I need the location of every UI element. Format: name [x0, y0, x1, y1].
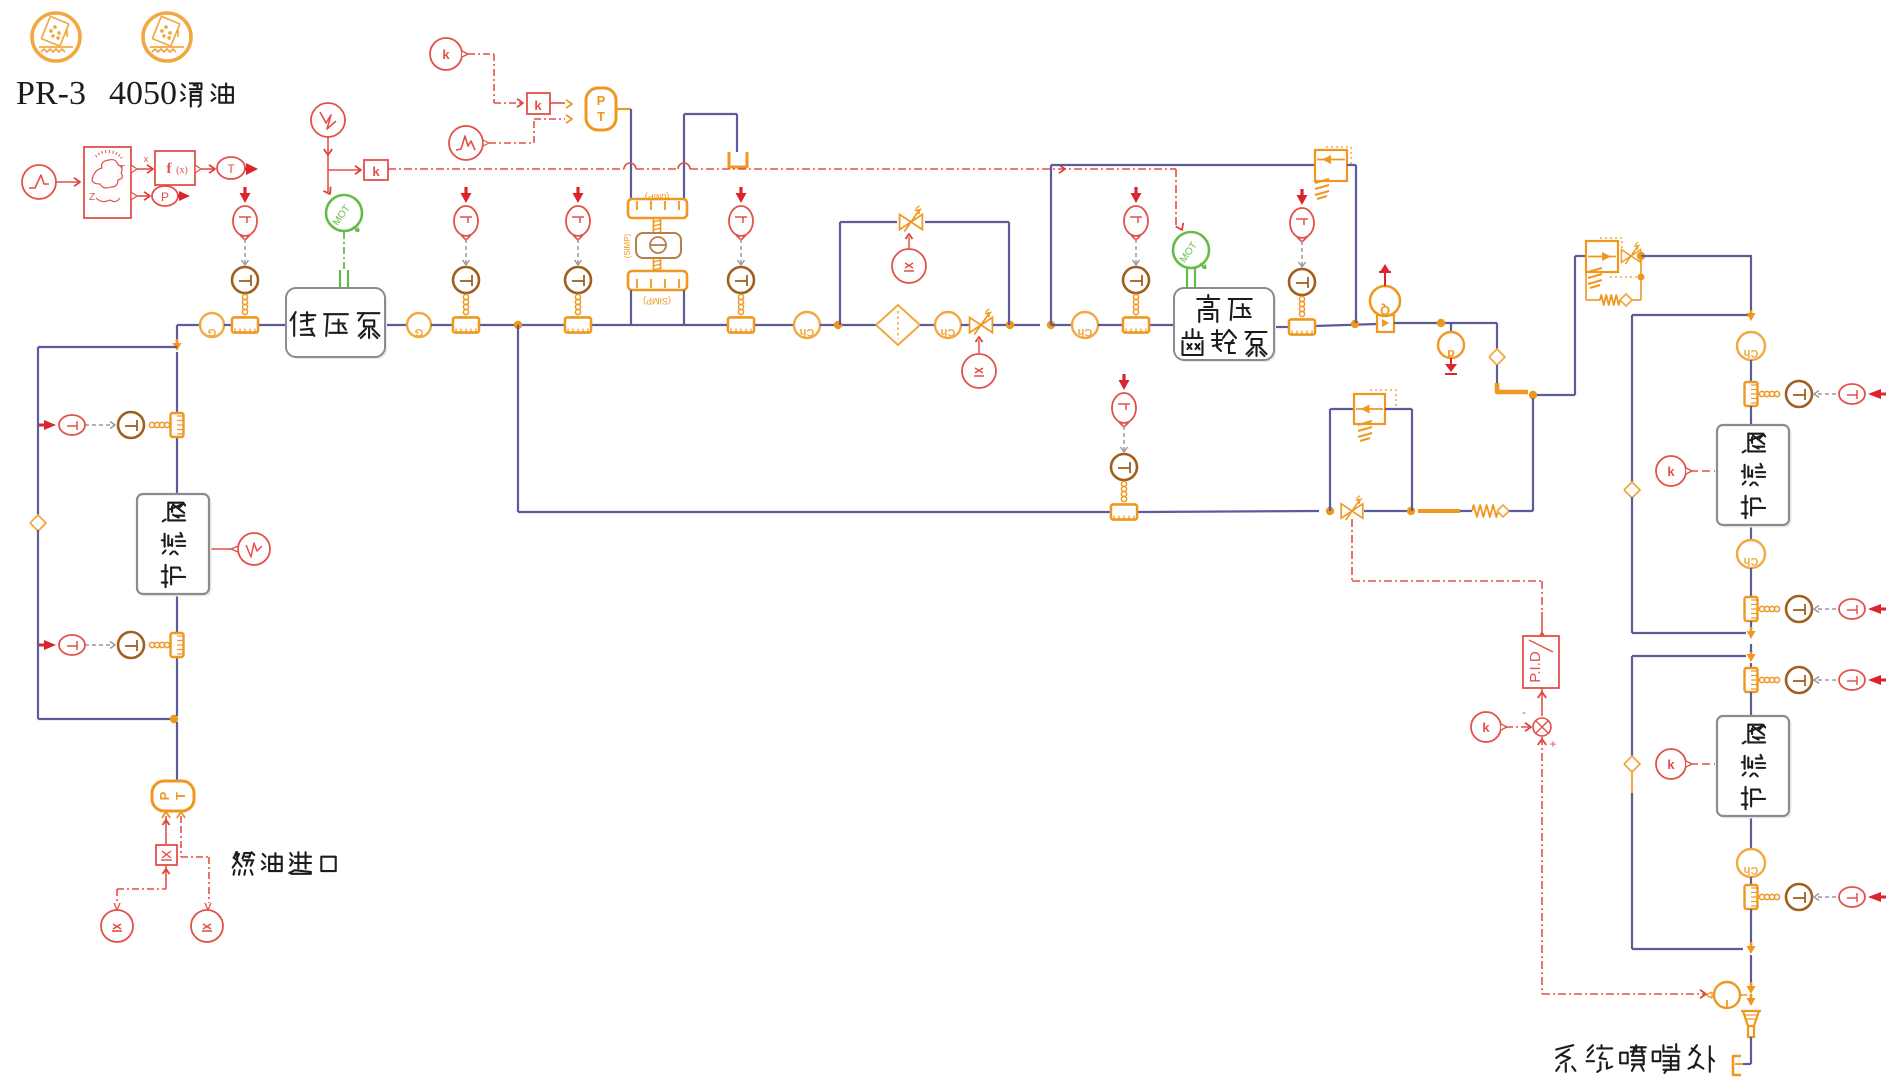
svg-text:G: G [208, 326, 217, 338]
svg-text:Ch: Ch [1743, 864, 1758, 876]
svg-text:k: k [442, 47, 450, 62]
svg-text:(SIMP): (SIMP) [643, 296, 671, 306]
svg-text:-: - [1522, 705, 1526, 719]
svg-text:T: T [227, 162, 235, 176]
svg-text:P.I.D: P.I.D [1527, 651, 1544, 683]
svg-text:(SiMP): (SiMP) [623, 233, 632, 258]
svg-text:PR-3: PR-3 [16, 75, 86, 112]
svg-text:T: T [173, 792, 188, 800]
svg-text:G: G [415, 326, 424, 338]
svg-text:P: P [157, 791, 172, 800]
svg-text:k: k [1667, 464, 1675, 479]
svg-text:k: k [1667, 757, 1675, 772]
svg-text:Z: Z [89, 192, 95, 203]
svg-text:k: k [372, 164, 380, 179]
svg-text:Q: Q [1380, 303, 1390, 318]
svg-text:x: x [144, 154, 149, 164]
svg-text:(x): (x) [176, 165, 188, 176]
svg-text:T: T [597, 109, 605, 124]
svg-text:Ch: Ch [940, 326, 955, 338]
svg-text:Ch: Ch [1743, 555, 1758, 567]
svg-text:(dMP): (dMP) [645, 192, 670, 202]
svg-text:T: T [119, 164, 125, 175]
svg-text:P: P [597, 93, 606, 108]
svg-text:Ch: Ch [799, 326, 814, 338]
svg-text:Ch: Ch [1077, 326, 1092, 338]
svg-text:k: k [1482, 720, 1490, 735]
svg-text:+: + [1549, 737, 1556, 751]
svg-text:4050: 4050 [109, 75, 177, 112]
svg-text:k: k [534, 98, 542, 113]
svg-text:P: P [161, 190, 169, 204]
svg-text:Ch: Ch [1743, 347, 1758, 359]
svg-text:T: T [1723, 997, 1731, 1011]
